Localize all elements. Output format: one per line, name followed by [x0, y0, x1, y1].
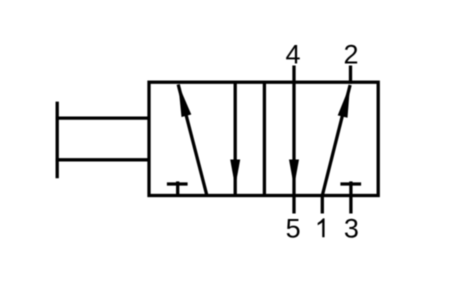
svg-text:4: 4 — [285, 40, 300, 70]
svg-text:2: 2 — [343, 40, 358, 70]
svg-text:5: 5 — [286, 213, 301, 243]
svg-text:3: 3 — [344, 213, 359, 243]
